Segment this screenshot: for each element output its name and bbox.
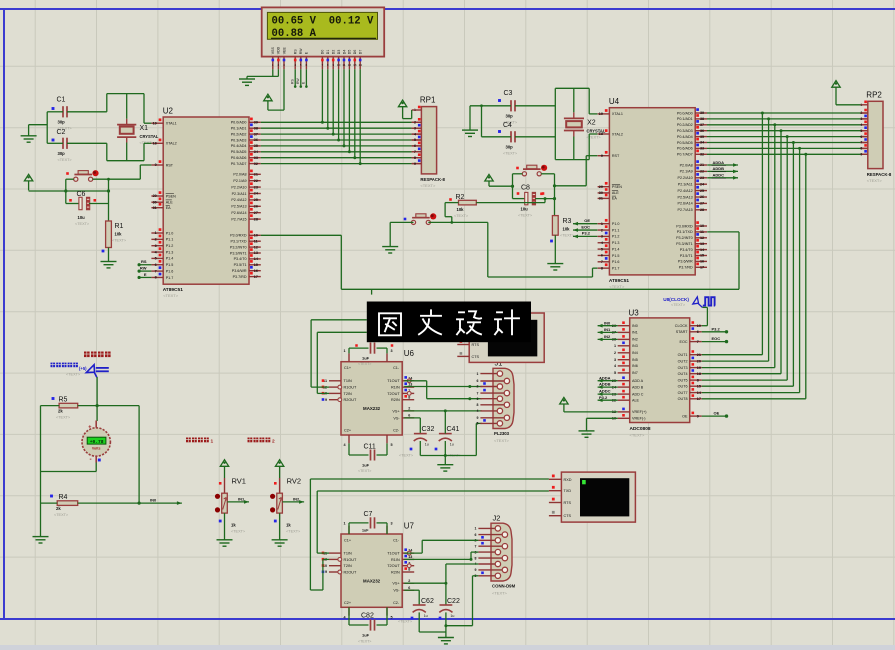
svg-text:6: 6 — [414, 144, 416, 148]
svg-text:EOC: EOC — [680, 340, 688, 344]
virtual terminal VT2 — [549, 472, 636, 522]
svg-text:T1IN: T1IN — [344, 379, 352, 383]
wire net ADDA from U4 — [707, 164, 738, 166]
capacitor above U6 1uF — [349, 343, 393, 367]
svg-text:27: 27 — [700, 202, 704, 206]
wire button left / C6 left — [66, 178, 74, 180]
svg-text:P2.3/A11: P2.3/A11 — [678, 183, 693, 187]
RS232 driver U6 MAX232 — [322, 349, 415, 447]
power +5V for RP2 — [832, 81, 840, 88]
wire R4 row net IN0 — [41, 502, 58, 504]
svg-text:P2.0/A8: P2.0/A8 — [233, 173, 246, 177]
svg-text:ADDB: ADDB — [599, 382, 611, 387]
wire net IN1 to ADC — [598, 331, 618, 333]
svg-text:17: 17 — [700, 266, 704, 270]
svg-text:2: 2 — [272, 438, 275, 444]
svg-text:MAX232: MAX232 — [363, 406, 381, 411]
svg-text:1u: 1u — [425, 443, 429, 447]
voltmeter — [82, 421, 110, 464]
svg-text:9: 9 — [155, 163, 157, 167]
resistor R5 — [52, 397, 78, 420]
svg-text:2: 2 — [408, 579, 410, 583]
svg-text:30: 30 — [599, 191, 603, 195]
wire net EOC — [702, 341, 727, 343]
svg-text:IN5: IN5 — [632, 358, 638, 362]
svg-text:P3.0/RXD: P3.0/RXD — [230, 234, 247, 238]
svg-text:CONN-D9M: CONN-D9M — [492, 584, 516, 589]
svg-text:C22: C22 — [447, 598, 460, 605]
svg-text:11: 11 — [700, 230, 704, 234]
svg-text:2: 2 — [408, 407, 410, 411]
svg-text:<TEXT>: <TEXT> — [503, 152, 518, 156]
svg-text:12: 12 — [700, 236, 704, 240]
svg-text:2: 2 — [278, 63, 280, 67]
svg-text:<TEXT>: <TEXT> — [58, 158, 73, 162]
svg-text:OUT1: OUT1 — [678, 353, 688, 357]
wire U6 VS- to C32 — [404, 417, 420, 419]
svg-text:RP1: RP1 — [420, 96, 436, 105]
svg-text:P0.0/AD0: P0.0/AD0 — [677, 111, 693, 115]
wire net ADDC to ADC — [598, 393, 618, 395]
push button reset U2 — [66, 170, 98, 181]
ground for C1/C2 — [21, 136, 37, 142]
svg-text:P1.1: P1.1 — [612, 228, 620, 232]
svg-text:12: 12 — [254, 245, 258, 249]
svg-text:VREF(+): VREF(+) — [632, 410, 646, 414]
svg-text:8: 8 — [601, 266, 603, 270]
svg-text:IN2: IN2 — [604, 334, 611, 339]
svg-text:<TEXT>: <TEXT> — [867, 178, 883, 183]
svg-text:P0.7/AD7: P0.7/AD7 — [677, 153, 693, 157]
resistor pack RP2 RESPACK-8 — [860, 90, 892, 183]
svg-text:OUT2: OUT2 — [678, 359, 688, 363]
resistor R2 10k — [449, 194, 476, 218]
svg-text:19: 19 — [599, 112, 603, 116]
svg-text:P2.7/A15: P2.7/A15 — [231, 217, 246, 221]
wire U7 T1OUT to J2 pin2 — [404, 552, 422, 554]
svg-text:P3.7/RD: P3.7/RD — [233, 275, 247, 279]
svg-text:P2.4/A12: P2.4/A12 — [678, 189, 693, 193]
wire RST U2 — [140, 164, 151, 166]
svg-text:11: 11 — [254, 239, 258, 243]
power +5V for RP1 — [398, 100, 406, 107]
svg-text:C2-: C2- — [393, 429, 400, 433]
svg-text:37: 37 — [700, 123, 704, 127]
label 检测电压1 — [186, 438, 191, 443]
svg-text:TXD: TXD — [564, 489, 572, 493]
svg-text:P3.6/WR: P3.6/WR — [678, 260, 693, 264]
svg-text:7: 7 — [860, 141, 862, 145]
svg-text:P2.6/A14: P2.6/A14 — [678, 202, 693, 206]
svg-text:2k: 2k — [58, 409, 63, 414]
svg-text:P2.2/A10: P2.2/A10 — [231, 185, 246, 189]
svg-text:4: 4 — [414, 132, 416, 136]
svg-text:<TEXT>: <TEXT> — [398, 620, 413, 624]
svg-text:10: 10 — [697, 324, 701, 328]
wire LCD RW — [300, 69, 302, 87]
svg-text:6: 6 — [475, 533, 477, 537]
svg-text:1: 1 — [477, 372, 479, 376]
svg-text:9: 9 — [477, 416, 479, 420]
svg-text:11: 11 — [342, 63, 345, 67]
svg-text:3: 3 — [860, 117, 862, 121]
svg-text:R1IN: R1IN — [391, 386, 400, 390]
wire RST U4 — [586, 155, 597, 157]
svg-text:RW: RW — [140, 266, 147, 271]
svg-text:EA: EA — [612, 197, 617, 201]
ground for LCD supply — [246, 76, 248, 79]
capacitor C22 — [439, 598, 460, 619]
label 检测电源 — [84, 352, 90, 358]
svg-text:XTAL2: XTAL2 — [166, 142, 177, 146]
wire C41 top — [444, 411, 446, 434]
wire U7 VS+ to J2 pin4 and C22 — [404, 582, 446, 584]
svg-text:C1+: C1+ — [344, 366, 352, 370]
svg-text:C32: C32 — [422, 426, 435, 433]
svg-text:3: 3 — [391, 522, 393, 526]
svg-text:5: 5 — [391, 443, 393, 447]
title banner — [367, 302, 531, 343]
svg-text:<TEXT>: <TEXT> — [286, 530, 301, 534]
svg-text:C62: C62 — [421, 598, 434, 605]
svg-text:OUT7: OUT7 — [678, 391, 688, 395]
power +5V for LCD VEE — [264, 94, 272, 101]
svg-text:1: 1 — [475, 527, 477, 531]
svg-text:RV2: RV2 — [287, 477, 301, 486]
svg-text:<TEXT>: <TEXT> — [399, 454, 414, 458]
svg-text:4: 4 — [860, 123, 862, 127]
svg-text:P3.3/INT1: P3.3/INT1 — [230, 251, 247, 255]
svg-text:RXD: RXD — [564, 478, 572, 482]
svg-text:IN2: IN2 — [632, 338, 638, 342]
svg-text:R1OUT: R1OUT — [344, 386, 358, 390]
capacitor C62 — [398, 598, 434, 624]
wire battery down — [96, 377, 98, 421]
svg-text:EOC: EOC — [712, 336, 721, 341]
svg-text:27: 27 — [254, 211, 258, 215]
svg-text:32: 32 — [254, 162, 258, 166]
svg-text:RESPACK-8: RESPACK-8 — [420, 177, 445, 182]
svg-text:ADDA: ADDA — [713, 160, 725, 165]
power +5V VREF+ — [560, 397, 568, 404]
svg-text:3: 3 — [391, 349, 393, 353]
svg-text:C3: C3 — [504, 90, 513, 97]
wire R5 row — [41, 405, 60, 407]
wire U6 T1OUT to J1 pin3 — [404, 380, 427, 382]
wire VT1 TXD to U6 T2IN — [317, 331, 367, 333]
svg-text:21: 21 — [697, 353, 701, 357]
svg-text:P1.0: P1.0 — [166, 231, 174, 235]
svg-text:P3.1/TXD: P3.1/TXD — [677, 230, 693, 234]
svg-text:R3: R3 — [563, 218, 572, 225]
svg-text:VREF(-): VREF(-) — [632, 417, 646, 421]
svg-text:<TEXT>: <TEXT> — [609, 284, 625, 289]
svg-text:2: 2 — [155, 238, 157, 242]
svg-text:P1.3: P1.3 — [166, 250, 174, 254]
connector J2 DB9 — [475, 513, 516, 595]
svg-text:1k: 1k — [231, 523, 236, 528]
svg-text:ALE: ALE — [166, 201, 174, 205]
svg-text:6: 6 — [408, 414, 410, 418]
svg-text:ADDB: ADDB — [713, 166, 725, 171]
potentiometer RV2 — [270, 460, 304, 547]
svg-text:ADD B: ADD B — [632, 385, 644, 389]
wire C3 row — [470, 105, 511, 107]
wire net ADDB from U4 — [707, 170, 738, 172]
svg-text:8: 8 — [408, 568, 410, 572]
svg-text:<TEXT>: <TEXT> — [163, 293, 179, 298]
svg-text:29: 29 — [599, 185, 603, 189]
svg-text:<TEXT>: <TEXT> — [358, 640, 371, 644]
svg-text:ADDC: ADDC — [599, 389, 611, 394]
svg-text:15: 15 — [700, 254, 704, 258]
svg-text:1uF: 1uF — [362, 356, 370, 361]
svg-text:C2: C2 — [57, 129, 66, 136]
svg-text:2k: 2k — [56, 506, 61, 511]
wire net ADDA to ADC — [598, 380, 618, 382]
svg-text:30p: 30p — [58, 151, 66, 156]
svg-text:3: 3 — [601, 235, 603, 239]
svg-text:36: 36 — [700, 129, 704, 133]
svg-text:29: 29 — [153, 194, 157, 198]
svg-text:R1IN: R1IN — [391, 558, 400, 562]
svg-text:P2.6/A14: P2.6/A14 — [231, 211, 246, 215]
svg-text:5: 5 — [477, 422, 479, 426]
svg-text:1u: 1u — [450, 614, 454, 618]
resistor R1 10k — [102, 221, 127, 252]
svg-text:VS+: VS+ — [392, 409, 400, 413]
svg-text:P3.2: P3.2 — [599, 395, 608, 400]
svg-text:23: 23 — [700, 176, 704, 180]
svg-text:CRYSTAL: CRYSTAL — [587, 129, 606, 134]
svg-text:P3.5/T1: P3.5/T1 — [234, 263, 247, 267]
svg-text:X2: X2 — [587, 120, 596, 127]
svg-text:P3.4/T0: P3.4/T0 — [680, 248, 693, 252]
svg-text:26: 26 — [700, 195, 704, 199]
svg-text:P1.2: P1.2 — [166, 244, 174, 248]
svg-text:(+5): (+5) — [79, 366, 87, 371]
svg-text:4: 4 — [477, 409, 479, 413]
svg-text:P3.0/RXD: P3.0/RXD — [676, 224, 693, 228]
svg-text:P1.5: P1.5 — [166, 263, 174, 267]
svg-text:ADDC: ADDC — [713, 173, 725, 178]
svg-text:R2IN: R2IN — [391, 398, 400, 402]
svg-text:P1.4: P1.4 — [612, 247, 620, 251]
wire R2 right to RST node — [476, 202, 545, 204]
svg-text:X1: X1 — [140, 125, 149, 132]
svg-text:P2.4/A12: P2.4/A12 — [231, 198, 246, 202]
wire serial link U2 P3.0 to U4 P3.1 — [261, 234, 342, 236]
svg-text:37: 37 — [254, 132, 258, 136]
resistor R4 — [50, 494, 78, 517]
svg-text:<TEXT>: <TEXT> — [494, 438, 510, 443]
bus verticals P0 to ADC OUT1-OUT8 — [761, 113, 763, 355]
ground for C62/C22 — [438, 638, 454, 644]
wire LCD E — [305, 69, 307, 87]
svg-text:19: 19 — [697, 366, 701, 370]
svg-text:9: 9 — [414, 162, 416, 166]
svg-text:IN6: IN6 — [632, 364, 638, 368]
svg-text:6: 6 — [601, 254, 603, 258]
svg-text:IN1: IN1 — [604, 327, 611, 332]
wire LCD RS — [294, 69, 296, 87]
svg-text:5: 5 — [614, 371, 616, 375]
svg-text:U3: U3 — [629, 309, 640, 318]
svg-text:P2.1/A9: P2.1/A9 — [680, 170, 693, 174]
svg-text:<TEXT>: <TEXT> — [358, 362, 371, 366]
svg-text:C1-: C1- — [393, 366, 400, 370]
svg-text:22: 22 — [700, 170, 704, 174]
svg-text:P2.2/A10: P2.2/A10 — [678, 176, 693, 180]
svg-text:U2: U2 — [163, 107, 174, 116]
svg-text:7: 7 — [697, 340, 699, 344]
svg-text:C11: C11 — [364, 444, 376, 451]
svg-text:1: 1 — [343, 522, 345, 526]
svg-text:5: 5 — [414, 138, 416, 142]
capacitor C7 1uF — [349, 511, 387, 534]
label 检测电压2 — [248, 438, 253, 443]
svg-text:31: 31 — [153, 206, 157, 210]
svg-text:CLOCK: CLOCK — [675, 324, 688, 328]
ground for C3/C4 — [462, 130, 478, 136]
wire net ADDB to ADC — [598, 386, 618, 388]
svg-text:T1OUT: T1OUT — [387, 379, 400, 383]
wire C6 right to R1 — [89, 203, 109, 205]
wire J2 pin5 to ground node — [473, 575, 479, 577]
ground for VREF- — [579, 431, 595, 437]
svg-text:ADD C: ADD C — [632, 392, 644, 396]
svg-text:P3.2: P3.2 — [582, 231, 591, 236]
microcontroller U2 AT89C51 — [151, 107, 260, 299]
wire J1 pin5 to ground node — [476, 422, 482, 424]
svg-text:P0.1/AD1: P0.1/AD1 — [677, 117, 693, 121]
svg-text:9: 9 — [325, 570, 327, 574]
svg-text:<TEXT>: <TEXT> — [454, 214, 469, 218]
wire power to C8 node — [489, 185, 513, 187]
wire U7 VS- to C62 — [404, 589, 419, 591]
svg-text:1k: 1k — [286, 523, 291, 528]
wire net P3.2 to U4 — [573, 235, 597, 237]
wire XTAL2 — [144, 142, 151, 144]
svg-text:EA: EA — [166, 206, 171, 210]
crystal X1 — [117, 119, 159, 145]
svg-text:8: 8 — [697, 378, 699, 382]
svg-text:39: 39 — [254, 121, 258, 125]
svg-text:P0.1/AD1: P0.1/AD1 — [231, 127, 247, 131]
svg-text:OUT5: OUT5 — [678, 378, 688, 382]
wire VT1 RXD to U6 R1OUT — [311, 319, 367, 321]
svg-text:6: 6 — [697, 330, 699, 334]
svg-text:P1.4: P1.4 — [166, 257, 174, 261]
svg-text:P0.4/AD4: P0.4/AD4 — [677, 135, 693, 139]
svg-text:6: 6 — [155, 263, 157, 267]
svg-text:10u: 10u — [521, 207, 529, 212]
svg-text:<TEXT>: <TEXT> — [630, 433, 646, 438]
wire net RS to U2 — [139, 264, 151, 266]
svg-text:P2.1/A9: P2.1/A9 — [233, 179, 246, 183]
bus wires U2 P0.0-P0.7 to RP1 — [261, 121, 412, 123]
svg-text:-: - — [90, 456, 92, 463]
svg-text:7: 7 — [414, 150, 416, 154]
svg-text:RW: RW — [296, 78, 300, 84]
svg-text:EOC: EOC — [581, 224, 590, 229]
svg-text:P2.3/A11: P2.3/A11 — [232, 192, 247, 196]
capacitor C11 1uF — [349, 443, 387, 473]
svg-text:3: 3 — [477, 397, 479, 401]
svg-text:P3.5/T1: P3.5/T1 — [680, 254, 693, 258]
svg-text:4: 4 — [294, 63, 296, 67]
svg-text:P0.5/AD5: P0.5/AD5 — [231, 150, 247, 154]
power +5V reset U4 — [485, 174, 493, 181]
svg-text:P3.6/WR: P3.6/WR — [232, 269, 247, 273]
svg-text:D6: D6 — [353, 50, 357, 55]
svg-text:P2.5/A13: P2.5/A13 — [678, 195, 693, 199]
svg-text:C2-: C2- — [393, 601, 400, 605]
svg-text:P0.3/AD3: P0.3/AD3 — [231, 138, 247, 142]
wire U7 R1IN to J2 pin3 — [404, 558, 471, 560]
svg-text:C2+: C2+ — [344, 429, 352, 433]
svg-text:CTS: CTS — [564, 514, 572, 518]
svg-text:OUT3: OUT3 — [678, 366, 688, 370]
svg-text:RST: RST — [166, 163, 174, 167]
svg-text:T1OUT: T1OUT — [387, 552, 400, 556]
svg-text:2: 2 — [477, 385, 479, 389]
wire VT2 TXD to U7 T1IN — [317, 490, 549, 492]
svg-text:IN1: IN1 — [632, 331, 638, 335]
wire C8 right — [535, 198, 554, 200]
svg-text:2: 2 — [414, 121, 416, 125]
wire button right node — [541, 173, 554, 175]
svg-text:15: 15 — [254, 263, 258, 267]
svg-text:35: 35 — [700, 135, 704, 139]
svg-text:RESPACK-8: RESPACK-8 — [867, 172, 892, 177]
svg-text:P3.7/RD: P3.7/RD — [679, 266, 693, 270]
wire power rail reset U2 — [29, 190, 109, 192]
svg-text:<TEXT>: <TEXT> — [56, 416, 71, 420]
wires LCD D0-D7 down to P0 bus — [321, 69, 323, 122]
svg-text:25: 25 — [700, 189, 704, 193]
svg-text:1: 1 — [211, 438, 214, 444]
resistor pack RP1 RESPACK-8 — [412, 96, 446, 189]
svg-text:T2OUT: T2OUT — [387, 392, 400, 396]
svg-text:P3.2/INT0: P3.2/INT0 — [230, 245, 247, 249]
svg-text:7: 7 — [322, 63, 324, 67]
svg-text:J2: J2 — [493, 513, 501, 522]
svg-text:8: 8 — [477, 403, 479, 407]
svg-text:13: 13 — [700, 242, 704, 246]
svg-text:2: 2 — [860, 111, 862, 115]
svg-text:1: 1 — [155, 231, 157, 235]
svg-text:30p: 30p — [58, 120, 66, 125]
wire net ADDC from U4 — [707, 177, 738, 179]
svg-text:D3: D3 — [337, 50, 341, 55]
svg-text:PL2303: PL2303 — [494, 431, 510, 436]
svg-text:9: 9 — [325, 398, 327, 402]
svg-text:<TEXT>: <TEXT> — [560, 234, 575, 238]
svg-text:VS+: VS+ — [392, 582, 400, 586]
svg-text:16: 16 — [254, 269, 258, 273]
svg-text:R5: R5 — [59, 397, 68, 404]
svg-text:36: 36 — [254, 138, 258, 142]
svg-text:CRYSTAL: CRYSTAL — [140, 134, 159, 139]
wire net RW to U2 — [139, 270, 151, 272]
resistor R3 10k — [540, 193, 575, 243]
microcontroller U4 AT89C51 — [598, 97, 707, 289]
svg-text:R2IN: R2IN — [391, 570, 400, 574]
svg-text:E: E — [144, 272, 147, 277]
svg-text:28: 28 — [700, 208, 704, 212]
svg-text:ALE: ALE — [632, 399, 640, 403]
